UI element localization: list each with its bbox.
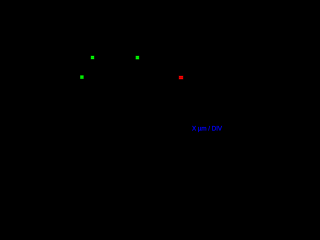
svg-text:X µm / DIV: X µm / DIV xyxy=(192,126,223,133)
marker M2 (green square, upper-right) xyxy=(136,56,140,60)
marker M4 (red double-bar) xyxy=(179,76,184,80)
marker M1 (green square, upper-left) xyxy=(91,56,95,60)
marker M3 (green square, lower-left) xyxy=(80,75,84,79)
